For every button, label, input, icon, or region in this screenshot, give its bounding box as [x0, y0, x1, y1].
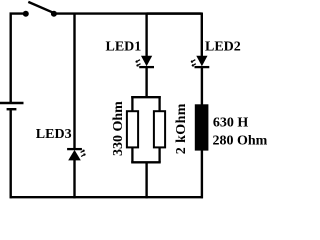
svg-text:330 Ohm: 330 Ohm [111, 101, 126, 156]
svg-text:630 H: 630 H [213, 116, 249, 131]
svg-text:280 Ohm: 280 Ohm [213, 134, 268, 149]
svg-text:LED2: LED2 [205, 40, 241, 55]
svg-text:LED1: LED1 [106, 40, 142, 55]
svg-text:LED3: LED3 [36, 127, 72, 142]
svg-text:2 kOhm: 2 kOhm [174, 103, 189, 154]
